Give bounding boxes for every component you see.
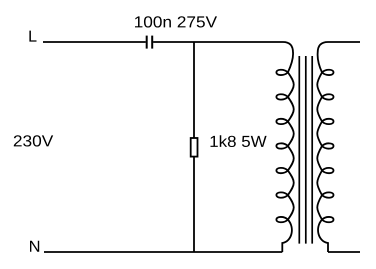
label 100n 275V for C1 (135, 16, 217, 27)
transformer T1 core (299, 56, 312, 244)
wire C1 to junction node (153, 41, 194, 43)
wire secondary top lead (328, 41, 360, 43)
wire N to transformer primary bottom (44, 251, 282, 253)
resistor R1 (191, 138, 198, 157)
transformer T1 primary winding (276, 42, 293, 252)
capacitor C1 (147, 36, 153, 49)
node N (30, 241, 39, 252)
wire L to capacitor C1 (43, 41, 146, 43)
wire R1 to N wire (193, 157, 195, 252)
label 230V (14, 135, 53, 146)
wire junction to transformer primary top (194, 41, 283, 43)
wire secondary bottom lead (328, 251, 360, 253)
node L (29, 31, 36, 42)
wire junction down to resistor R1 (193, 42, 195, 138)
transformer T1 secondary winding (317, 42, 333, 252)
label 1k8 5W for R1 (211, 135, 267, 147)
